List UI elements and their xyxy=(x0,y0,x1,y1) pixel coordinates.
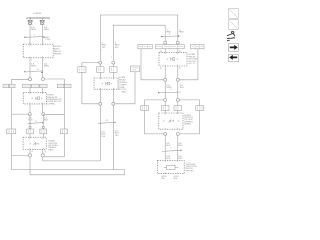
label box row ur 1 xyxy=(138,45,152,49)
svg-text:10: 10 xyxy=(31,151,33,153)
wire rail link left xyxy=(12,78,29,80)
svg-text:(RH I/P): (RH I/P) xyxy=(186,170,194,172)
legend scribble xyxy=(227,31,235,40)
ur jog tick xyxy=(158,92,160,94)
bypass link y114 xyxy=(45,113,64,115)
pin ticks mid relay xyxy=(100,78,113,89)
relay coil symbol box2 xyxy=(36,97,40,100)
rail link y114 xyxy=(12,113,29,115)
lr box arrows xyxy=(163,120,165,122)
svg-text:GRN: GRN xyxy=(31,65,36,67)
inner feed rectangle top xyxy=(113,25,165,61)
legend arrow box left xyxy=(229,54,239,62)
fusible link box xyxy=(131,66,140,72)
fuse box lr rail right xyxy=(196,106,204,111)
connector circle mid-right lower xyxy=(112,102,115,105)
ground block inner resistor xyxy=(163,165,178,169)
svg-text:1: 1 xyxy=(101,49,102,51)
legend arrow box right xyxy=(229,44,239,52)
twist jog top-left xyxy=(25,36,45,39)
dashed box underhood fuse block (relay K1) xyxy=(23,93,46,104)
svg-text:RED: RED xyxy=(122,92,127,94)
connector circle mid-right xyxy=(112,61,115,64)
relay arrows inside box2 xyxy=(31,97,33,99)
svg-text:1: 1 xyxy=(111,57,112,59)
svg-text:BLK: BLK xyxy=(29,119,34,121)
svg-text:8: 8 xyxy=(29,139,30,141)
jog mid end tick xyxy=(115,122,117,123)
bracket over horns xyxy=(27,17,50,19)
svg-text:RED: RED xyxy=(179,32,184,34)
line C bottom xyxy=(30,170,125,175)
dashed box ground block xyxy=(157,160,184,173)
fuse box bypass xyxy=(60,129,67,134)
connector circle lr-left xyxy=(164,98,167,101)
svg-text:GRN: GRN xyxy=(44,29,49,31)
splice cross line xyxy=(28,122,43,125)
label boxes row y84 rail xyxy=(3,84,15,88)
switch arrows inside box3 xyxy=(29,143,31,145)
wire xyxy=(165,135,178,160)
svg-text:WIRE): WIRE) xyxy=(184,124,191,126)
fuse box lr wire right xyxy=(174,106,182,111)
svg-text:30: 30 xyxy=(179,68,181,70)
wire xyxy=(100,89,113,102)
connector circle right y79 xyxy=(41,78,44,81)
svg-text:2: 2 xyxy=(43,59,44,61)
pin ticks ground block xyxy=(165,160,178,173)
jog tick left xyxy=(24,71,26,72)
horn H2 xyxy=(40,18,44,24)
wire below box1 right xyxy=(42,58,44,78)
svg-text:PAD): PAD) xyxy=(48,148,53,151)
svg-text:S1: S1 xyxy=(36,69,38,71)
wire xyxy=(165,81,178,98)
pin ticks lr box xyxy=(165,113,178,129)
line A bottom xyxy=(43,160,101,162)
wire bypass link right xyxy=(44,78,64,80)
mid ring rail xyxy=(82,63,99,104)
jog top-left tick xyxy=(24,36,26,38)
connector circle bottom left xyxy=(28,154,31,157)
connector circle left y79 xyxy=(29,78,32,81)
wire xyxy=(30,38,43,44)
wire xyxy=(30,149,43,153)
connector circle lr-left bottom xyxy=(164,132,167,135)
ur relay arrows xyxy=(167,58,169,60)
ur left rail xyxy=(141,49,164,80)
label box row ur 3 xyxy=(191,45,204,49)
fuse box lr wire left xyxy=(161,106,169,111)
svg-text:HORNS: HORNS xyxy=(33,13,41,15)
connector circle right y114 xyxy=(42,113,45,116)
fuse box wire right xyxy=(40,129,47,134)
twist jog line xyxy=(25,71,43,72)
mid relay arrows xyxy=(101,83,103,85)
connector circle lr-right bottom xyxy=(176,132,179,135)
wire A drop xyxy=(42,157,44,161)
twist jog ur top xyxy=(162,35,180,38)
fuse box mid rail xyxy=(78,67,86,73)
label boxes row y84 bypass xyxy=(57,84,71,88)
svg-text:10: 10 xyxy=(44,151,46,153)
splice dots xyxy=(29,123,30,124)
fuse box lr rail left xyxy=(141,106,149,111)
wire xyxy=(30,104,43,113)
switch symbol box3 xyxy=(33,142,38,145)
inline connector small circle right xyxy=(42,126,44,128)
connector circle left y114 xyxy=(28,113,31,116)
connector circle ur-right xyxy=(176,41,179,44)
twist jog lr xyxy=(162,150,181,151)
connector circle ur-right lower xyxy=(176,78,179,81)
ur top jog tick right xyxy=(178,36,179,37)
ur top jog tick left xyxy=(161,36,163,38)
lr box switch symbol xyxy=(168,120,173,123)
connector circle mid-left xyxy=(99,61,102,64)
legend square 2 xyxy=(229,20,239,30)
dashed box connector C2 (underhood lamp) xyxy=(23,44,53,58)
connector circle ur-left lower xyxy=(164,78,167,81)
pin ticks ur relay xyxy=(165,53,178,66)
legend square 1 xyxy=(229,9,239,19)
inline connector small circle left xyxy=(29,126,31,128)
svg-text:9: 9 xyxy=(42,139,43,141)
svg-text:BLK: BLK xyxy=(178,145,183,147)
dashed box mid relay xyxy=(94,78,118,89)
pin ticks box2 xyxy=(30,93,43,104)
twist jog mid xyxy=(98,121,116,124)
connector circle mid-left lower xyxy=(99,102,102,105)
wire xyxy=(100,64,113,78)
svg-text:BLK: BLK xyxy=(166,158,171,160)
lr jog tick xyxy=(180,149,182,151)
fuse box mid wire right xyxy=(110,67,117,73)
svg-text:(UHFB): (UHFB) xyxy=(47,103,55,105)
mid ring link left xyxy=(82,62,99,64)
horn H1 xyxy=(28,18,32,24)
wire horn1 down xyxy=(29,24,31,38)
svg-text:2: 2 xyxy=(31,59,32,61)
wire mid-left lower xyxy=(99,105,101,161)
rail link bottom xyxy=(12,155,29,157)
dashed box horn switch xyxy=(23,137,46,149)
twist jog ur xyxy=(159,91,181,94)
connector circle bottom right xyxy=(41,154,44,157)
wire xyxy=(30,134,43,137)
wire mid-right lower xyxy=(112,105,114,169)
label box row ur 2 xyxy=(156,45,185,49)
svg-text:BLK: BLK xyxy=(44,119,49,121)
pin ticks box1 xyxy=(30,44,43,58)
lr ring right xyxy=(179,100,199,134)
svg-text:FRONT: FRONT xyxy=(54,53,62,55)
ur relay coil xyxy=(171,57,175,60)
svg-text:S3: S3 xyxy=(106,120,108,122)
wire B drop xyxy=(29,157,31,175)
jog tick right xyxy=(41,71,43,73)
svg-text:C101: C101 xyxy=(45,39,51,41)
bypass bottom link xyxy=(44,156,64,158)
dashed box lr horn switch xyxy=(159,113,183,129)
connector circle lr-right xyxy=(176,98,179,101)
wire below box1 left xyxy=(29,58,31,78)
label boxes row y84 wires xyxy=(23,84,47,88)
wire xyxy=(30,114,43,129)
svg-text:GRN: GRN xyxy=(31,29,36,31)
svg-text:NO. 1): NO. 1) xyxy=(189,63,196,65)
fuse box wire left xyxy=(27,129,34,134)
pin ticks box3 xyxy=(30,137,43,149)
svg-text:BLK: BLK xyxy=(178,158,183,160)
ur right rail xyxy=(179,49,198,80)
svg-text:87: 87 xyxy=(160,68,162,70)
wire xyxy=(30,88,43,93)
jog top-left end dot xyxy=(43,37,44,38)
wire xyxy=(165,49,178,53)
bypass rail vertical xyxy=(63,79,65,157)
connector circle ur-left xyxy=(164,41,167,44)
fuse box mid wire left xyxy=(97,67,104,73)
fuse box rail xyxy=(7,129,16,134)
outer feed rectangle top xyxy=(100,15,178,61)
svg-text:S2: S2 xyxy=(35,121,37,123)
svg-text:BLK: BLK xyxy=(180,87,185,89)
left rail vertical xyxy=(11,79,13,169)
wire horn2 down xyxy=(42,24,44,38)
lr ring left xyxy=(145,100,164,134)
fusible link wire xyxy=(115,72,135,104)
svg-text:GRN: GRN xyxy=(44,65,49,67)
mid relay coil xyxy=(106,82,110,85)
wire xyxy=(165,66,178,78)
line B bottom xyxy=(12,169,125,171)
dashed box ur relay K2 xyxy=(159,53,187,66)
wire xyxy=(165,101,178,113)
